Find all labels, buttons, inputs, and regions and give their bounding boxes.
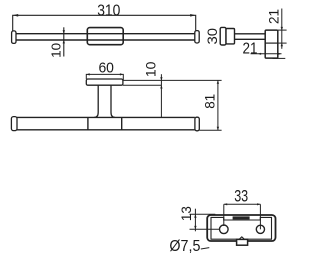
dimension 13 line xyxy=(194,209,196,232)
svg-text:10: 10 xyxy=(48,43,63,58)
dimension 81 bottom extension line xyxy=(200,129,222,131)
dimension diameter 7,5 leader xyxy=(201,248,210,249)
svg-text:13: 13 xyxy=(179,206,194,221)
dimension 310 arrows xyxy=(13,14,196,17)
dimension 21 vertical extension lines xyxy=(278,30,287,43)
dimension 13 arrows xyxy=(194,214,196,229)
top view bar tube edges xyxy=(16,34,195,40)
dimension 10 (top view) line xyxy=(63,27,65,56)
svg-text:Ø7,5: Ø7,5 xyxy=(169,238,200,255)
dimension 81 arrows xyxy=(217,80,219,130)
svg-text:81: 81 xyxy=(202,94,218,109)
top view right end cap xyxy=(195,31,199,43)
svg-text:33: 33 xyxy=(234,186,248,205)
dimension 33 line xyxy=(224,203,261,205)
detail plate center tab xyxy=(233,216,250,219)
dimension 33 arrows xyxy=(224,203,261,205)
front view mounting plate xyxy=(86,79,123,85)
dimension 10 (front) arrows xyxy=(160,77,162,88)
side view wall plate inner line xyxy=(265,42,278,44)
dimension 13 extension lines xyxy=(190,214,220,229)
front view pedestal stem xyxy=(94,85,115,117)
dimension 21 horizontal line xyxy=(251,53,282,55)
svg-text:310: 310 xyxy=(97,3,120,20)
dimension 60 arrows xyxy=(86,73,123,75)
dimension 10 (front) top extension line xyxy=(123,79,221,81)
svg-text:21: 21 xyxy=(266,9,282,24)
dimension 21 horizontal arrows xyxy=(258,53,282,55)
dimension 10 (front) bottom extension line xyxy=(123,84,161,86)
dimension 60 line with extension legs xyxy=(86,74,123,80)
dimension 310 line with extension legs xyxy=(13,15,196,31)
svg-text:30: 30 xyxy=(204,28,220,45)
dimension 10 (front) line xyxy=(160,74,162,117)
side view hub xyxy=(226,29,235,44)
svg-text:21: 21 xyxy=(243,41,258,58)
dimension 21 horizontal bottom tick xyxy=(273,57,286,59)
side view flange ring xyxy=(220,27,226,45)
top view center block xyxy=(87,28,123,45)
dimension 81 line xyxy=(217,80,219,130)
front view left end cap xyxy=(11,117,17,131)
front view bar edges xyxy=(17,117,195,129)
dimension 33 extension lines xyxy=(224,204,261,229)
side view arm rod xyxy=(235,34,266,40)
top view left end cap xyxy=(12,31,16,44)
detail plate outer body xyxy=(207,215,275,241)
detail plate inner outline with centering triangle xyxy=(211,217,272,239)
front view right end cap xyxy=(195,117,199,131)
svg-text:10: 10 xyxy=(142,61,158,77)
detail screw hole right xyxy=(256,225,264,233)
front view pedestal base xyxy=(88,117,122,129)
dimension 21 vertical arrows xyxy=(281,27,283,46)
side view wall plate body xyxy=(265,30,278,58)
detail plate bottom notch box xyxy=(237,239,248,245)
detail screw hole left xyxy=(220,225,229,234)
dimension 21 vertical line xyxy=(281,9,283,49)
svg-text:60: 60 xyxy=(98,59,114,76)
dimension 10 (top view) arrows xyxy=(63,30,65,43)
